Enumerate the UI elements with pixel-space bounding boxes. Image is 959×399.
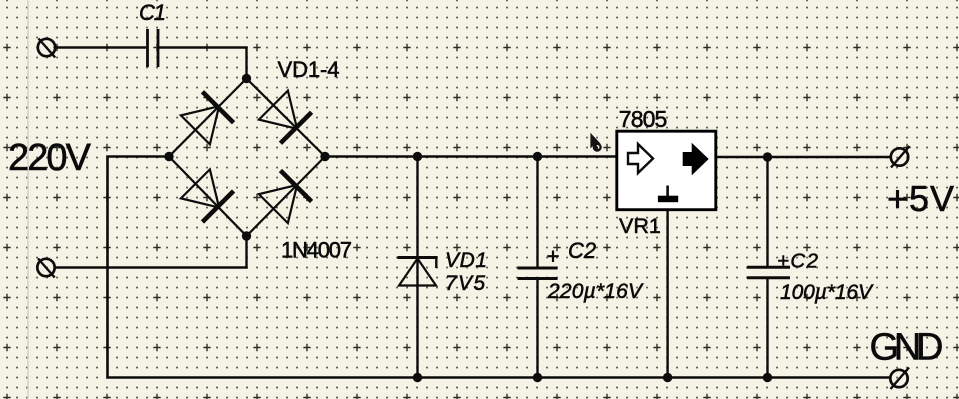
diode D2 top-right [258, 90, 313, 145]
wire right node to regulator input [325, 155, 616, 158]
faint sheet margin line [27, 0, 29, 399]
node output cap top [763, 152, 772, 161]
wire regulator output to +5V terminal [716, 156, 891, 159]
svg-text:1N4007: 1N4007 [281, 238, 352, 263]
mouse cursor [590, 133, 600, 151]
diode D1 top-left [180, 91, 235, 146]
wire left node to ground rail (bottom rail) [108, 157, 891, 378]
node zener bottom [413, 373, 422, 382]
node C2 bottom [533, 373, 542, 382]
wire output cap branch lower [766, 278, 768, 378]
C2 plus sign [547, 251, 558, 263]
svg-text:220µ*16V: 220µ*16V [547, 280, 644, 303]
terminal input top (220V phase) [38, 39, 55, 58]
svg-text:100µ*16V: 100µ*16V [780, 281, 874, 304]
node top [242, 74, 251, 83]
svg-text:VR1: VR1 [619, 214, 661, 238]
wire C1 to bridge top node [159, 48, 247, 79]
terminal +5V output [891, 146, 910, 168]
wire bridge diamond edges [169, 79, 325, 237]
terminal input bottom (220V neutral) [37, 259, 54, 278]
node regulator ground on rail [663, 373, 672, 382]
ground symbol inside box [666, 186, 669, 197]
wire terminalB to bridge bottom node [55, 236, 247, 268]
zener diode VD1 [398, 258, 438, 286]
diode D4 bottom-right [258, 169, 313, 224]
wire regulator ground pin [666, 211, 668, 378]
svg-text:VD1: VD1 [445, 249, 487, 272]
capacitor C2 plates [518, 268, 558, 279]
node left [164, 152, 173, 161]
wire terminalA to C1 [55, 46, 147, 48]
node zener top [413, 152, 422, 161]
input arrow (outline) [628, 144, 653, 173]
capacitor C3 (marked +C2) plates [747, 267, 790, 278]
wire output cap branch upper [766, 157, 768, 267]
svg-text:GND: GND [870, 327, 944, 369]
svg-text:7V5: 7V5 [445, 272, 485, 295]
capacitor C1 plates [148, 29, 159, 67]
svg-text:220V: 220V [8, 137, 92, 179]
wire zener branch [416, 157, 418, 378]
wire C2 branch upper [536, 157, 538, 269]
node C2 top [533, 152, 542, 161]
output arrow (solid) [683, 143, 709, 176]
node bottom [242, 231, 251, 240]
op regulator VR1 7805 box [617, 131, 716, 210]
svg-text:+C2: +C2 [777, 250, 819, 273]
wire C2 branch lower [536, 279, 538, 378]
svg-text:C2: C2 [568, 238, 596, 263]
svg-text:+5V: +5V [887, 178, 954, 219]
svg-text:7805: 7805 [619, 106, 668, 132]
diode D3 bottom-left [180, 168, 235, 223]
node right [320, 152, 329, 161]
svg-text:C1: C1 [139, 0, 166, 25]
node output cap bottom [763, 373, 772, 382]
svg-text:VD1-4: VD1-4 [278, 57, 340, 82]
terminal GND [890, 368, 909, 390]
